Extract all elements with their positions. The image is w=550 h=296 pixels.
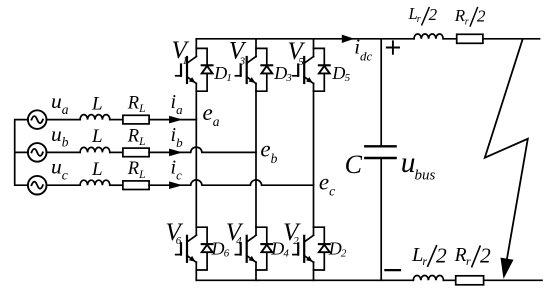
wire — [110, 184, 123, 186]
svg-text:R: R — [454, 245, 467, 266]
wire phase b to bridge — [149, 147, 256, 152]
current arrow ia — [169, 116, 183, 124]
svg-text:r: r — [422, 254, 427, 268]
svg-text:1: 1 — [182, 55, 188, 67]
svg-text:L: L — [91, 159, 103, 180]
ac source ua — [28, 110, 47, 129]
wire bridge leg 2 — [255, 39, 257, 280]
svg-text:4: 4 — [283, 247, 289, 259]
svg-text:2: 2 — [429, 5, 438, 24]
diode D3 — [261, 65, 272, 73]
wire left bus — [15, 120, 28, 186]
minus sign — [385, 269, 400, 271]
load arrow (lightning bolt) — [485, 39, 528, 279]
diode D6 — [202, 244, 213, 252]
wire phase a source to inductor — [47, 119, 81, 121]
svg-text:5: 5 — [298, 56, 304, 68]
resistor RL phase b — [123, 148, 149, 157]
wire diode branch D3 — [256, 48, 267, 91]
wire phase c to bridge — [149, 180, 313, 185]
wire — [110, 119, 123, 121]
resistor RL phase a — [123, 115, 149, 124]
svg-text:4: 4 — [236, 235, 242, 247]
svg-text:2: 2 — [480, 244, 491, 268]
inductor L phase a — [80, 115, 110, 120]
wire diode branch D6 — [196, 227, 207, 270]
svg-text:6: 6 — [224, 247, 230, 259]
inductor L phase b — [80, 147, 110, 152]
inductor L phase c — [80, 180, 110, 185]
svg-text:2: 2 — [477, 6, 486, 25]
svg-text:D: D — [213, 63, 227, 83]
inductor Lr/2 top — [414, 34, 443, 39]
inductor Lr/2 bottom — [413, 275, 443, 280]
wire bridge leg 1 — [195, 39, 197, 280]
plus sign — [387, 41, 399, 54]
transistor V2 — [293, 235, 314, 262]
svg-text:L: L — [91, 126, 103, 147]
svg-text:D: D — [328, 238, 342, 258]
resistor Rr/2 bottom — [456, 276, 484, 285]
svg-text:L: L — [91, 93, 103, 114]
diode D2 — [319, 244, 330, 252]
svg-text:r: r — [465, 16, 469, 27]
transistor V5 — [293, 57, 314, 84]
wire bridge leg 3 — [313, 39, 315, 280]
diode D1 — [202, 65, 213, 73]
wire diode branch D1 — [196, 48, 207, 91]
svg-text:1: 1 — [226, 72, 232, 84]
svg-text:2: 2 — [341, 247, 347, 259]
wire capacitor branch — [380, 39, 382, 280]
resistor Rr/2 top — [457, 34, 483, 43]
wire bottom dc rail — [196, 279, 542, 281]
svg-text:2: 2 — [436, 244, 447, 268]
svg-text:D: D — [273, 63, 287, 83]
wire diode branch D5 — [314, 48, 325, 91]
svg-text:5: 5 — [345, 72, 351, 84]
wire phase c source to inductor — [47, 184, 81, 186]
svg-text:6: 6 — [176, 235, 182, 247]
svg-text:2: 2 — [293, 235, 299, 247]
svg-text:D: D — [331, 63, 345, 83]
svg-text:r: r — [417, 14, 421, 25]
wire diode branch D2 — [314, 227, 325, 270]
wire phase a to bridge — [149, 119, 196, 121]
resistor RL phase c — [123, 181, 149, 190]
svg-text:D: D — [211, 238, 225, 258]
current arrow ic — [169, 181, 183, 189]
svg-text:C: C — [345, 150, 363, 179]
transistor V3 — [235, 57, 256, 84]
capacitor C — [365, 146, 395, 158]
current arrow idc — [342, 35, 355, 43]
ac source uc — [28, 176, 47, 195]
svg-text:3: 3 — [239, 55, 246, 67]
diode D4 — [261, 244, 272, 252]
transistor V6 — [176, 235, 197, 262]
svg-text:3: 3 — [285, 72, 292, 84]
svg-text:r: r — [466, 254, 471, 268]
wire phase b source to inductor — [47, 151, 81, 153]
ac source ub — [28, 143, 47, 162]
diode D5 — [319, 65, 330, 73]
transistor V1 — [176, 57, 197, 84]
wire diode branch D4 — [256, 227, 267, 270]
transistor V4 — [235, 235, 256, 262]
wire — [110, 151, 123, 153]
current arrow ib — [169, 149, 183, 157]
wire top dc rail — [196, 38, 539, 40]
